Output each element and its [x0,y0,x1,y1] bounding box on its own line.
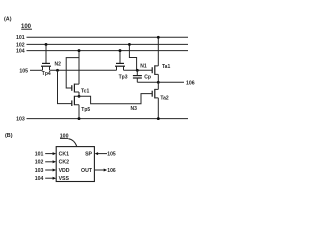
node output (junction) [157,81,160,84]
wire Tc1 drain to 104 [78,51,80,85]
wire Tc1 source to Tp5 drain [78,92,80,96]
transistor Tp4 [41,44,51,77]
node dot on 104 (Tc1) [78,49,81,52]
leader line 100 to block [68,139,76,147]
wire N2 horizontal run (Tp4 drain to Tp3 source) [50,69,117,71]
svg-text:104: 104 [35,176,44,182]
node dot on 102 (Tp4 gate) [45,43,48,46]
node N1 [136,69,139,72]
svg-text:Ta1: Ta1 [162,64,170,70]
svg-text:103: 103 [16,117,25,123]
wire Tc1 gate loop to 104 [66,58,79,88]
node dot on 103 (Ta2 source) [157,117,160,120]
svg-text:Tc1: Tc1 [81,89,89,95]
wire Tp5 source to 103 [78,105,80,119]
arrow 105 to SP [98,153,107,155]
wire 101 (clock line CK1) [27,36,189,38]
node dot on 101 (Ta1 drain) [157,36,160,39]
svg-text:Ta2: Ta2 [160,96,168,102]
svg-text:CK2: CK2 [59,160,69,166]
wire Ta2 drain to output node [157,82,159,89]
svg-text:Cp: Cp [144,74,151,80]
arrow 101 to CK1 [45,153,53,155]
arrow OUT to 106 [95,169,104,171]
svg-text:VDD: VDD [59,168,70,174]
svg-text:101: 101 [35,152,44,158]
capacitor Cp [133,70,151,82]
svg-text:(A): (A) [4,17,12,23]
wire N2 branch to Tp5 gate [58,70,72,103]
node dot on 103 (Tp5) [78,117,81,120]
arrow 103 to VDD [45,169,53,171]
svg-text:N2: N2 [55,61,62,67]
block 100 (shift register IC) [56,147,94,182]
transistor Tp3 [115,51,128,81]
node N2 [56,69,59,72]
svg-text:102: 102 [35,160,44,166]
wire Cp bottom to output node [137,81,158,83]
arrow 102 to CK2 [45,161,53,163]
svg-text:SP: SP [85,152,92,158]
wire 105 (SP input) [30,69,43,71]
svg-text:102: 102 [16,42,25,48]
wire Ta1 drain to 101 [157,37,159,66]
svg-text:105: 105 [107,151,116,157]
transistor Tp5 [72,96,91,113]
svg-text:Tp4: Tp4 [42,71,51,77]
wire Ta2 source to 103 [157,98,159,119]
svg-text:VSS: VSS [59,176,70,182]
transistor Tc1 [72,84,90,95]
wire Ta1 source to output node [157,74,159,82]
wire node N3 (to Ta2 gate) [79,94,152,104]
wire 102 (clock line CK2) [27,43,189,45]
svg-text:106: 106 [186,80,195,86]
transistor Ta2 [152,89,169,102]
wire 103 (VDD line) [27,118,189,120]
wire output to 106 [158,81,184,83]
svg-text:(B): (B) [5,133,13,139]
svg-text:Tp5: Tp5 [81,107,90,113]
svg-text:CK1: CK1 [59,152,69,158]
svg-text:106: 106 [107,168,116,174]
svg-text:N3: N3 [131,106,138,112]
wire 104 (VSS line) [27,50,189,52]
wire branch 102 to node N1 [129,44,136,70]
svg-text:N1: N1 [140,63,147,69]
svg-text:104: 104 [16,49,25,55]
arrow 104 to VSS [45,177,53,179]
svg-text:OUT: OUT [81,168,93,174]
node dot between Tc1 and Tp5 [78,95,81,98]
svg-text:101: 101 [16,35,25,41]
svg-text:103: 103 [35,168,44,174]
node dot on 104 (Tp3 gate) [119,49,122,52]
transistor Ta1 [152,64,170,75]
node dot on 102 (N1 branch) [128,43,131,46]
svg-text:105: 105 [19,68,28,74]
wire Tp3 drain to Ta1 gate [124,69,153,71]
svg-text:Tp3: Tp3 [119,74,128,80]
